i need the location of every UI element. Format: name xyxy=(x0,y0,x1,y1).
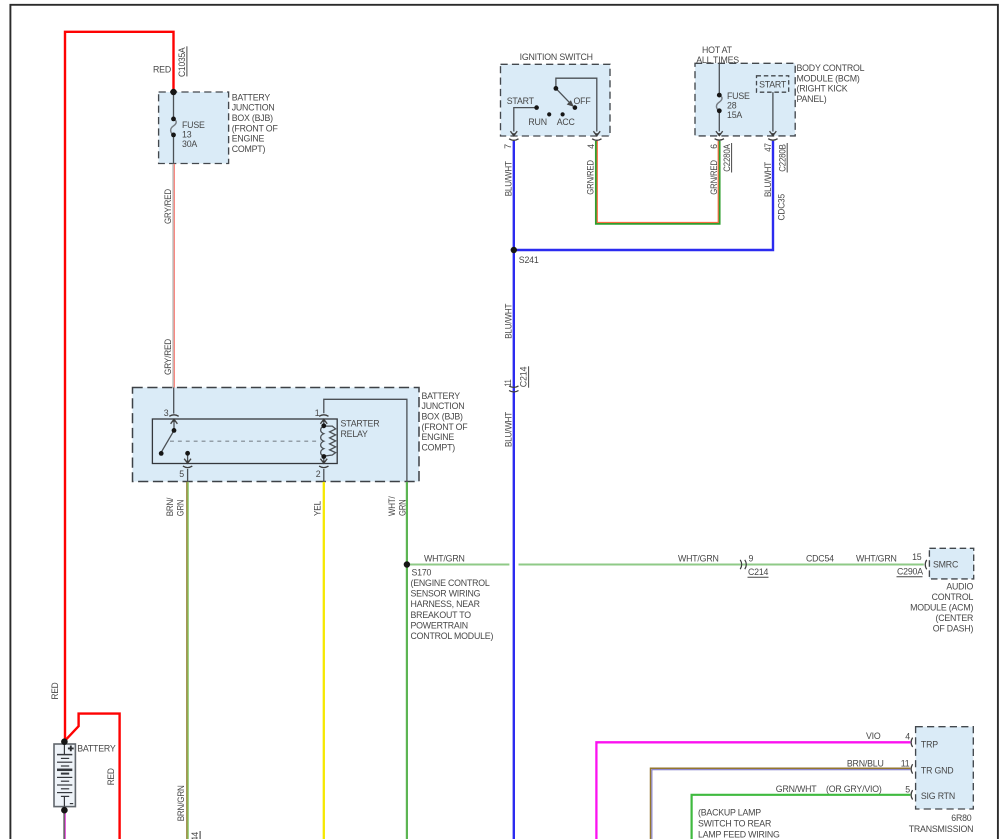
svg-text:RED: RED xyxy=(106,768,116,785)
svg-text:START: START xyxy=(759,80,787,90)
svg-text:C2280B: C2280B xyxy=(778,144,788,172)
svg-text:COMPT): COMPT) xyxy=(232,144,266,154)
svg-text:13: 13 xyxy=(182,130,192,140)
svg-text:4: 4 xyxy=(905,732,910,742)
svg-text:LAMP FEED WIRING: LAMP FEED WIRING xyxy=(698,830,780,839)
svg-text:6R80: 6R80 xyxy=(951,813,972,823)
svg-text:GRN/RED: GRN/RED xyxy=(709,160,719,195)
svg-text:SWITCH TO REAR: SWITCH TO REAR xyxy=(698,819,771,829)
svg-text:POWERTRAIN: POWERTRAIN xyxy=(411,620,468,630)
svg-text:BRN/: BRN/ xyxy=(165,497,175,516)
svg-text:2: 2 xyxy=(316,469,321,479)
svg-text:ENGINE: ENGINE xyxy=(232,134,265,144)
svg-text:COMPT): COMPT) xyxy=(422,443,456,453)
svg-text:VIO: VIO xyxy=(866,731,881,741)
svg-text:STARTER: STARTER xyxy=(341,419,380,429)
svg-text:RED: RED xyxy=(50,683,60,700)
svg-text:OFF: OFF xyxy=(574,96,592,106)
svg-text:CDC35: CDC35 xyxy=(777,194,787,221)
svg-text:47: 47 xyxy=(763,143,773,152)
svg-text:GRN: GRN xyxy=(176,500,186,517)
svg-text:30A: 30A xyxy=(182,139,197,149)
svg-text:AUDIO: AUDIO xyxy=(946,581,973,591)
svg-text:PANEL): PANEL) xyxy=(797,94,827,104)
svg-text:(OR GRY/VIO): (OR GRY/VIO) xyxy=(826,784,882,794)
svg-text:(RIGHT KICK: (RIGHT KICK xyxy=(797,84,848,94)
svg-text:C214: C214 xyxy=(748,567,769,577)
svg-text:BATTERY: BATTERY xyxy=(77,744,116,754)
svg-text:4: 4 xyxy=(586,144,596,149)
svg-text:BLU/WHT: BLU/WHT xyxy=(763,161,773,197)
svg-text:(CENTER: (CENTER xyxy=(935,613,973,623)
svg-text:BOX (BJB): BOX (BJB) xyxy=(422,412,463,422)
svg-text:9: 9 xyxy=(749,554,754,564)
svg-text:15A: 15A xyxy=(727,110,742,120)
svg-text:ALL TIMES: ALL TIMES xyxy=(696,55,739,65)
svg-text:IGNITION SWITCH: IGNITION SWITCH xyxy=(520,52,593,62)
svg-text:HOT AT: HOT AT xyxy=(702,45,733,55)
svg-text:3: 3 xyxy=(164,408,169,418)
svg-text:S170: S170 xyxy=(412,568,432,578)
svg-text:GRN/WHT: GRN/WHT xyxy=(776,784,817,794)
svg-text:C290A: C290A xyxy=(897,567,923,577)
svg-text:BRN/BLU: BRN/BLU xyxy=(847,758,884,768)
svg-text:TRANSMISSION: TRANSMISSION xyxy=(909,824,974,834)
svg-text:5: 5 xyxy=(905,784,910,794)
svg-text:HARNESS, NEAR: HARNESS, NEAR xyxy=(411,599,480,609)
svg-text:5: 5 xyxy=(179,469,184,479)
svg-text:BRN/GRN: BRN/GRN xyxy=(176,785,186,821)
svg-text:44: 44 xyxy=(190,832,200,839)
svg-text:MODULE (BCM): MODULE (BCM) xyxy=(797,73,860,83)
svg-text:JUNCTION: JUNCTION xyxy=(422,401,465,411)
svg-text:BATTERY: BATTERY xyxy=(232,92,271,102)
svg-text:1: 1 xyxy=(315,408,320,418)
svg-text:OF DASH): OF DASH) xyxy=(933,624,974,634)
svg-text:C2280A: C2280A xyxy=(722,144,732,172)
svg-text:BLU/WHT: BLU/WHT xyxy=(503,161,513,197)
svg-text:WHT/GRN: WHT/GRN xyxy=(678,554,719,564)
svg-text:YEL: YEL xyxy=(312,501,322,516)
svg-text:SIG RTN: SIG RTN xyxy=(921,791,955,801)
svg-text:BOX (BJB): BOX (BJB) xyxy=(232,113,273,123)
svg-text:BATTERY: BATTERY xyxy=(422,391,461,401)
svg-text:GRY/RED: GRY/RED xyxy=(163,339,173,375)
svg-text:WHT/: WHT/ xyxy=(387,496,397,516)
svg-text:BREAKOUT TO: BREAKOUT TO xyxy=(411,610,472,620)
svg-text:WHT/GRN: WHT/GRN xyxy=(856,554,897,564)
svg-text:C214: C214 xyxy=(518,366,528,387)
svg-text:SENSOR WIRING: SENSOR WIRING xyxy=(411,589,481,599)
svg-text:BLU/WHT: BLU/WHT xyxy=(503,411,513,447)
svg-text:START: START xyxy=(507,96,535,106)
svg-text:7: 7 xyxy=(503,144,513,149)
svg-text:RUN: RUN xyxy=(528,117,546,127)
svg-text:6: 6 xyxy=(709,144,719,149)
svg-text:15: 15 xyxy=(912,552,922,562)
svg-text:(FRONT OF: (FRONT OF xyxy=(232,123,279,133)
svg-text:JUNCTION: JUNCTION xyxy=(232,103,275,113)
svg-text:ENGINE: ENGINE xyxy=(422,432,455,442)
svg-text:CONTROL MODULE): CONTROL MODULE) xyxy=(411,631,494,641)
svg-text:(BACKUP LAMP: (BACKUP LAMP xyxy=(698,808,761,818)
svg-text:BODY CONTROL: BODY CONTROL xyxy=(797,63,865,73)
svg-text:11: 11 xyxy=(503,379,513,386)
svg-text:MODULE (ACM): MODULE (ACM) xyxy=(910,603,973,613)
svg-text:(FRONT OF: (FRONT OF xyxy=(422,422,469,432)
svg-text:SMRC: SMRC xyxy=(933,560,959,570)
svg-text:TRP: TRP xyxy=(921,740,938,750)
svg-text:GRN: GRN xyxy=(397,500,407,517)
svg-text:RELAY: RELAY xyxy=(341,429,369,439)
svg-text:C1035A: C1035A xyxy=(177,47,187,77)
svg-text:BLU/WHT: BLU/WHT xyxy=(503,303,513,339)
svg-text:ACC: ACC xyxy=(557,117,576,127)
svg-text:RED: RED xyxy=(153,64,171,74)
svg-text:CONTROL: CONTROL xyxy=(932,592,974,602)
svg-text:S241: S241 xyxy=(519,255,539,265)
svg-text:28: 28 xyxy=(727,101,737,111)
svg-text:CDC54: CDC54 xyxy=(806,554,834,564)
svg-text:FUSE: FUSE xyxy=(727,91,750,101)
svg-text:GRN/RED: GRN/RED xyxy=(585,160,595,195)
svg-text:(ENGINE CONTROL: (ENGINE CONTROL xyxy=(411,578,490,588)
svg-text:11: 11 xyxy=(901,758,910,768)
svg-text:TR GND: TR GND xyxy=(921,766,954,776)
svg-text:WHT/GRN: WHT/GRN xyxy=(424,554,465,564)
svg-text:GRY/RED: GRY/RED xyxy=(163,189,173,224)
svg-text:FUSE: FUSE xyxy=(182,120,205,130)
